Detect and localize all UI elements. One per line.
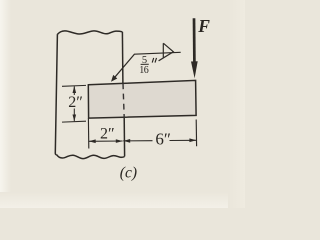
vertical 2in dimension: top extension line — [62, 84, 86, 87]
plate left edge — [55, 34, 57, 154]
plate (vertical member) top wavy break line — [57, 31, 122, 35]
weld leader arrowhead (at plate/beam joint) — [111, 75, 117, 82]
right extension line below beam — [195, 120, 197, 147]
force F arrowhead — [191, 61, 198, 78]
vertical dim up arrowhead — [73, 86, 77, 93]
plate bottom wavy break line — [57, 155, 125, 159]
plate right edge (solid below beam) — [123, 118, 125, 157]
vertical 2in dimension: bottom extension line — [62, 120, 86, 123]
svg-text:(c): (c) — [120, 165, 137, 182]
svg-text:16: 16 — [139, 65, 148, 76]
beam (horizontal bar, shaded) — [88, 80, 196, 118]
2in horizontal dimension line — [89, 140, 123, 142]
6in dimension line (broken for text) — [123, 140, 152, 142]
svg-text:2″: 2″ — [100, 125, 115, 142]
2in dim right arrowhead (points right) — [116, 139, 123, 143]
force F arrow shaft — [193, 18, 196, 62]
left extension line below beam — [87, 118, 89, 148]
vertical dim down arrowhead — [73, 115, 77, 122]
svg-text:F: F — [197, 16, 210, 36]
fraction bar — [141, 63, 149, 65]
svg-text:2″: 2″ — [68, 94, 83, 111]
plate right edge (solid above beam) — [121, 32, 124, 83]
left arrowhead of 6in (points left) — [123, 139, 130, 143]
vertical 2in dimension line (broken for text) — [73, 86, 75, 95]
weld symbol triangle — [159, 43, 174, 61]
right arrowhead of 6in (points right) — [189, 138, 196, 142]
weld leader line with arrowhead — [113, 52, 181, 80]
hidden plate edge (dashed) through beam — [123, 83, 124, 117]
2in dim left arrowhead (points left) — [89, 139, 96, 143]
svg-text:6″: 6″ — [155, 130, 171, 149]
inch (double prime) marks after 5/16 — [152, 58, 156, 63]
